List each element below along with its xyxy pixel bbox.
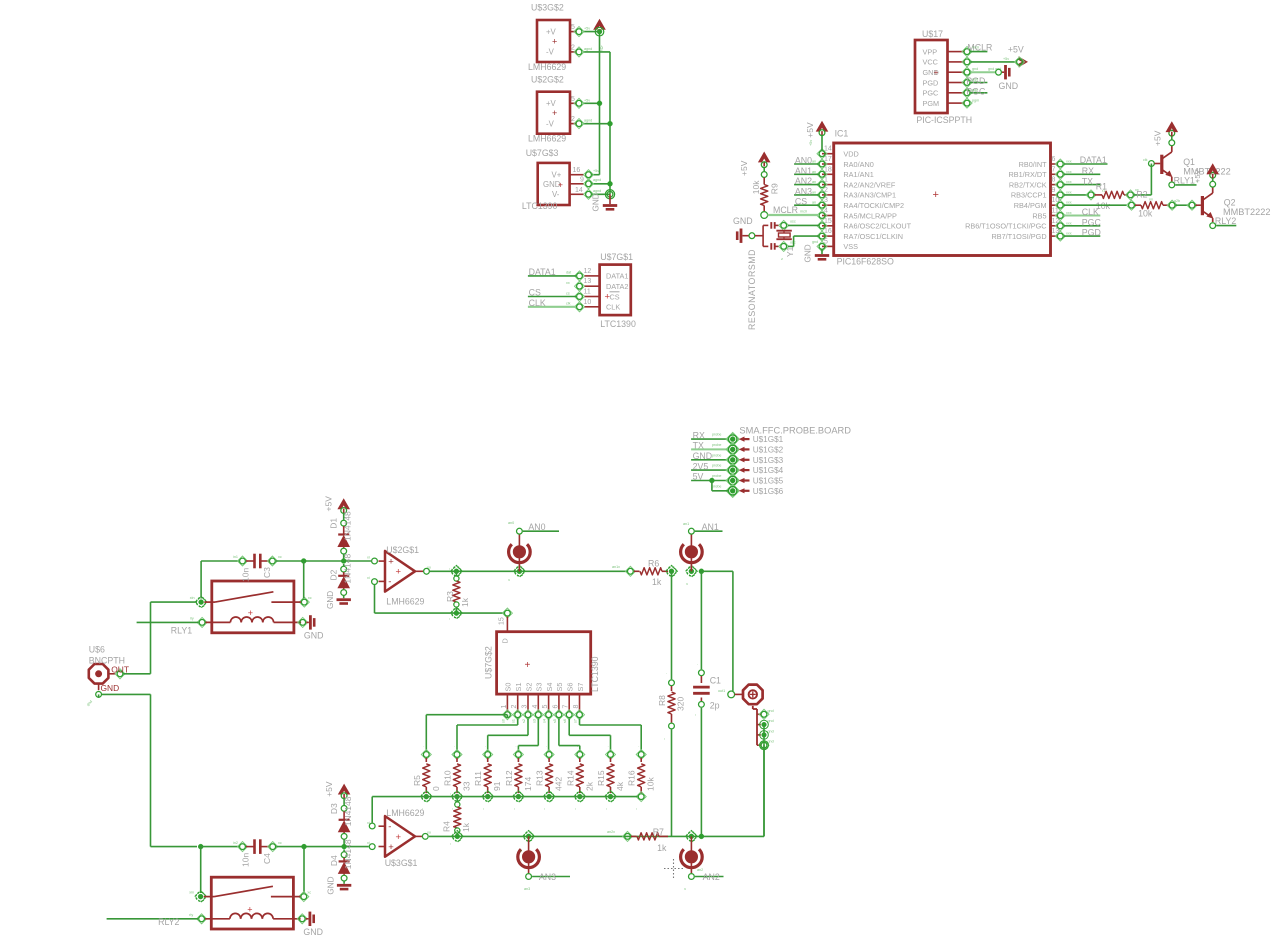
svg-text:12: 12 bbox=[584, 268, 592, 275]
svg-text:RESONATORSMD: RESONATORSMD bbox=[747, 249, 757, 330]
svg-text:pgd: pgd bbox=[972, 78, 978, 82]
svg-text:+5v: +5v bbox=[584, 27, 590, 31]
svg-text:xxx: xxx bbox=[1066, 211, 1072, 215]
svg-text:R9: R9 bbox=[770, 183, 780, 194]
svg-text:osc: osc bbox=[790, 241, 796, 245]
svg-text:1N4148: 1N4148 bbox=[343, 511, 353, 541]
svg-text:4: 4 bbox=[532, 705, 539, 709]
svg-text:RA1/AN1: RA1/AN1 bbox=[843, 170, 873, 179]
svg-text:CS: CS bbox=[529, 288, 541, 298]
svg-text:probe: probe bbox=[712, 443, 721, 447]
svg-text:CS: CS bbox=[610, 292, 620, 301]
svg-text:xi: xi bbox=[367, 576, 370, 580]
svg-text:~: ~ bbox=[694, 714, 698, 716]
svg-text:LMH6629: LMH6629 bbox=[386, 808, 424, 818]
svg-text:xxx: xxx bbox=[1066, 221, 1072, 225]
svg-text:xxx: xxx bbox=[1066, 170, 1072, 174]
svg-text:xc: xc bbox=[307, 891, 311, 895]
svg-text:probe: probe bbox=[712, 433, 721, 437]
svg-text:·: · bbox=[423, 745, 424, 749]
svg-text:an1: an1 bbox=[683, 522, 689, 526]
svg-text:gnd: gnd bbox=[812, 240, 818, 244]
svg-text:9: 9 bbox=[1052, 187, 1056, 194]
svg-text:an2: an2 bbox=[697, 868, 703, 872]
svg-text:R14: R14 bbox=[565, 770, 575, 786]
svg-text:5: 5 bbox=[571, 96, 575, 103]
svg-text:R10: R10 bbox=[443, 770, 453, 786]
svg-text:out1: out1 bbox=[718, 689, 725, 693]
svg-text:PIC-ICSPPTH: PIC-ICSPPTH bbox=[916, 115, 972, 125]
svg-text:10k: 10k bbox=[1138, 209, 1153, 219]
svg-text:·: · bbox=[638, 745, 639, 749]
svg-text:gnd: gnd bbox=[768, 709, 774, 713]
svg-text:+: + bbox=[248, 608, 253, 618]
svg-text:R4: R4 bbox=[441, 821, 451, 832]
svg-text:in2: in2 bbox=[233, 841, 238, 845]
svg-text:xi: xi bbox=[367, 556, 370, 560]
svg-text:D2: D2 bbox=[329, 569, 339, 580]
svg-text:11: 11 bbox=[1052, 208, 1059, 215]
svg-text:~: ~ bbox=[635, 808, 639, 810]
svg-text:TX: TX bbox=[1082, 176, 1093, 186]
svg-text:U$7G$2: U$7G$2 bbox=[483, 646, 493, 679]
svg-text:DATA2: DATA2 bbox=[606, 282, 628, 291]
svg-text:U$7G$1: U$7G$1 bbox=[600, 252, 633, 262]
svg-text:13: 13 bbox=[1052, 228, 1060, 235]
svg-text:~: ~ bbox=[605, 808, 609, 810]
svg-text:an: an bbox=[812, 170, 816, 174]
svg-text:+5v: +5v bbox=[600, 45, 604, 51]
svg-text:xx: xx bbox=[566, 281, 570, 285]
svg-text:s1: s1 bbox=[512, 719, 516, 723]
svg-text:+: + bbox=[934, 67, 939, 77]
svg-text:V-: V- bbox=[552, 190, 560, 199]
svg-text:s2: s2 bbox=[522, 719, 526, 723]
svg-text:U$3G$1: U$3G$1 bbox=[385, 858, 418, 868]
svg-text:Q2: Q2 bbox=[1224, 198, 1236, 208]
svg-text:15: 15 bbox=[499, 617, 506, 625]
svg-text:1N4148: 1N4148 bbox=[343, 839, 353, 869]
svg-text:RLY1: RLY1 bbox=[171, 626, 192, 636]
svg-text:RA3/AN3/CMP1: RA3/AN3/CMP1 bbox=[843, 191, 896, 200]
svg-text:gnd: gnd bbox=[768, 729, 774, 733]
svg-text:VDD: VDD bbox=[843, 150, 858, 159]
svg-text:RA0/AN0: RA0/AN0 bbox=[843, 160, 873, 169]
svg-text:9: 9 bbox=[580, 176, 584, 183]
svg-text:1k: 1k bbox=[461, 822, 471, 832]
svg-text:D4: D4 bbox=[329, 855, 339, 866]
svg-text:+5v: +5v bbox=[1003, 57, 1009, 61]
svg-text:R2: R2 bbox=[1136, 189, 1147, 199]
svg-text:10: 10 bbox=[1052, 197, 1060, 204]
svg-text:-V: -V bbox=[546, 119, 555, 128]
svg-text:1N4148: 1N4148 bbox=[343, 554, 353, 584]
svg-text:1k: 1k bbox=[652, 577, 662, 587]
svg-text:33: 33 bbox=[462, 781, 472, 791]
svg-text:RB5: RB5 bbox=[1032, 211, 1046, 220]
svg-text:C4: C4 bbox=[262, 853, 272, 864]
svg-text:14: 14 bbox=[824, 146, 832, 153]
svg-text:RB0/INT: RB0/INT bbox=[1019, 160, 1048, 169]
svg-text:U$1G$2: U$1G$2 bbox=[753, 445, 784, 454]
svg-text:xc: xc bbox=[308, 596, 312, 600]
svg-text:RB3/CCP1: RB3/CCP1 bbox=[1011, 191, 1047, 200]
svg-text:5: 5 bbox=[824, 238, 828, 245]
svg-text:S1: S1 bbox=[514, 683, 523, 692]
svg-text:U$2G$2: U$2G$2 bbox=[531, 74, 564, 84]
svg-text:C3: C3 bbox=[262, 567, 272, 578]
svg-text:an: an bbox=[812, 180, 816, 184]
svg-text:0: 0 bbox=[431, 786, 441, 791]
svg-text:R13: R13 bbox=[535, 770, 545, 786]
svg-text:pgm: pgm bbox=[972, 99, 979, 103]
svg-text:6: 6 bbox=[1052, 156, 1056, 163]
svg-text:AN0: AN0 bbox=[528, 522, 545, 532]
svg-text:xxx: xxx bbox=[1066, 190, 1072, 194]
svg-text:2: 2 bbox=[511, 705, 518, 709]
svg-text:mclr: mclr bbox=[800, 210, 808, 214]
svg-text:dat: dat bbox=[566, 271, 571, 275]
svg-text:4: 4 bbox=[824, 208, 828, 215]
svg-text:gnd: gnd bbox=[768, 719, 774, 723]
svg-text:clk: clk bbox=[1143, 158, 1148, 162]
svg-text:GND: GND bbox=[303, 927, 323, 937]
svg-text:AN3: AN3 bbox=[795, 186, 812, 196]
svg-text:6: 6 bbox=[552, 705, 559, 709]
svg-text:R7: R7 bbox=[653, 827, 664, 837]
svg-text:8: 8 bbox=[1052, 177, 1056, 184]
svg-text:LMH6629: LMH6629 bbox=[386, 597, 424, 607]
svg-text:2V5: 2V5 bbox=[693, 461, 709, 471]
svg-text:s4: s4 bbox=[543, 719, 547, 723]
svg-text:x: x bbox=[685, 583, 689, 585]
svg-text:·: · bbox=[485, 745, 486, 749]
svg-text:xxx: xxx bbox=[1066, 201, 1072, 205]
svg-text:R5: R5 bbox=[412, 775, 422, 786]
svg-text:x: x bbox=[507, 579, 511, 581]
svg-text:RX: RX bbox=[693, 430, 705, 440]
svg-text:10k: 10k bbox=[646, 777, 656, 791]
svg-text:+V: +V bbox=[546, 27, 557, 36]
svg-text:probe: probe bbox=[712, 464, 721, 468]
svg-text:xc: xc bbox=[278, 555, 282, 559]
svg-text:cs: cs bbox=[566, 292, 570, 296]
svg-text:RA7/OSC1/CLKIN: RA7/OSC1/CLKIN bbox=[843, 232, 903, 241]
svg-text:U$1G$4: U$1G$4 bbox=[753, 466, 784, 475]
svg-text:clk: clk bbox=[566, 302, 571, 306]
svg-text:10n: 10n bbox=[241, 568, 251, 582]
svg-text:in1: in1 bbox=[233, 555, 238, 559]
svg-text:AN2: AN2 bbox=[795, 176, 812, 186]
svg-text:VSS: VSS bbox=[843, 242, 858, 251]
svg-text:U$2G$1: U$2G$1 bbox=[386, 545, 419, 555]
svg-text:CLK: CLK bbox=[529, 298, 546, 308]
svg-text:LMH6629: LMH6629 bbox=[528, 134, 566, 144]
svg-text:S6: S6 bbox=[566, 683, 575, 692]
svg-text:s: s bbox=[780, 258, 784, 260]
svg-text:PIC16F628SO: PIC16F628SO bbox=[837, 257, 894, 267]
svg-text:GND: GND bbox=[733, 216, 753, 226]
svg-text:RB4/PGM: RB4/PGM bbox=[1014, 201, 1047, 210]
svg-text:VCC: VCC bbox=[923, 58, 938, 67]
svg-text:RB6/T1OSO/T1CKI/PGC: RB6/T1OSO/T1CKI/PGC bbox=[965, 222, 1047, 231]
svg-text:s7: s7 bbox=[574, 719, 578, 723]
svg-text:an2x: an2x bbox=[607, 830, 615, 834]
svg-text:GND: GND bbox=[592, 193, 601, 211]
svg-text:an: an bbox=[812, 160, 816, 164]
svg-text:+5V: +5V bbox=[324, 781, 334, 797]
svg-text:U$1G$6: U$1G$6 bbox=[753, 487, 784, 496]
svg-text:S2: S2 bbox=[524, 683, 533, 692]
svg-text:3: 3 bbox=[522, 705, 529, 709]
svg-text:~: ~ bbox=[451, 808, 455, 810]
svg-text:1N4148: 1N4148 bbox=[343, 796, 353, 826]
svg-text:+5V: +5V bbox=[1008, 45, 1024, 55]
svg-text:7: 7 bbox=[1052, 166, 1056, 173]
svg-text:+5V: +5V bbox=[1193, 169, 1202, 183]
svg-text:AN2: AN2 bbox=[703, 872, 720, 882]
svg-text:probe: probe bbox=[712, 474, 721, 478]
svg-text:R15: R15 bbox=[596, 770, 606, 786]
svg-text:CLK: CLK bbox=[1082, 207, 1099, 217]
svg-text:Q1: Q1 bbox=[1183, 157, 1195, 167]
svg-text:DATA1: DATA1 bbox=[1080, 155, 1107, 165]
svg-text:an1x: an1x bbox=[612, 565, 620, 569]
svg-text:rly: rly bbox=[189, 913, 193, 917]
svg-text:probe: probe bbox=[712, 453, 721, 457]
svg-text:VPP: VPP bbox=[923, 47, 938, 56]
svg-text:SMA.FFC.PROBE.BOARD: SMA.FFC.PROBE.BOARD bbox=[739, 426, 851, 436]
svg-text:U$1G$1: U$1G$1 bbox=[753, 435, 784, 444]
svg-text:probe: probe bbox=[712, 484, 721, 488]
svg-text:1: 1 bbox=[501, 705, 508, 709]
svg-text:DATA1: DATA1 bbox=[606, 272, 628, 281]
svg-text:RA2/AN2/VREF: RA2/AN2/VREF bbox=[843, 180, 895, 189]
svg-text:GND: GND bbox=[804, 244, 813, 262]
svg-text:2: 2 bbox=[571, 116, 575, 123]
svg-text:7: 7 bbox=[563, 705, 570, 709]
svg-text:+5v: +5v bbox=[593, 169, 599, 173]
svg-text:~: ~ bbox=[574, 808, 578, 810]
svg-text:xc: xc bbox=[278, 841, 282, 845]
svg-text:5V: 5V bbox=[693, 472, 704, 482]
svg-text:PGD: PGD bbox=[923, 78, 939, 87]
svg-text:RA6/OSC2/CLKOUT: RA6/OSC2/CLKOUT bbox=[843, 222, 911, 231]
svg-text:~: ~ bbox=[448, 568, 452, 570]
svg-text:1k: 1k bbox=[460, 597, 470, 607]
svg-text:D1: D1 bbox=[329, 518, 339, 529]
svg-text:S7: S7 bbox=[576, 683, 585, 692]
svg-text:q2b: q2b bbox=[1174, 199, 1180, 203]
svg-text:gnd: gnd bbox=[768, 740, 774, 744]
svg-text:C1: C1 bbox=[710, 676, 721, 686]
svg-text:12: 12 bbox=[1052, 218, 1060, 225]
svg-text:U$1G$5: U$1G$5 bbox=[753, 477, 784, 486]
svg-text:+: + bbox=[396, 567, 402, 578]
svg-text:16: 16 bbox=[824, 228, 832, 235]
svg-text:xxx: xxx bbox=[1066, 180, 1072, 184]
svg-text:·: · bbox=[546, 745, 547, 749]
svg-text:+: + bbox=[388, 556, 394, 567]
svg-text:R6: R6 bbox=[648, 559, 659, 569]
svg-text:MMBT2222: MMBT2222 bbox=[1223, 207, 1271, 217]
svg-text:RLY2: RLY2 bbox=[158, 917, 179, 927]
svg-text:x: x bbox=[683, 888, 687, 890]
svg-text:+5v: +5v bbox=[809, 140, 813, 146]
svg-text:nn: nn bbox=[1149, 198, 1153, 202]
svg-text:·: · bbox=[666, 672, 667, 676]
svg-text:91: 91 bbox=[492, 781, 502, 791]
svg-text:an3: an3 bbox=[524, 887, 530, 891]
svg-text:~: ~ bbox=[482, 808, 486, 810]
svg-text:DATA1: DATA1 bbox=[529, 267, 556, 277]
svg-text:rly: rly bbox=[190, 616, 194, 620]
svg-text:R8: R8 bbox=[657, 695, 667, 706]
svg-text:5: 5 bbox=[542, 705, 549, 709]
svg-text:RX: RX bbox=[1082, 166, 1094, 176]
svg-text:+V: +V bbox=[546, 99, 557, 108]
svg-text:-: - bbox=[388, 822, 391, 833]
svg-text:R3: R3 bbox=[445, 591, 455, 602]
svg-text:agnd: agnd bbox=[584, 119, 592, 123]
svg-text:+: + bbox=[396, 832, 402, 843]
svg-text:GND: GND bbox=[101, 683, 120, 693]
svg-text:-: - bbox=[388, 577, 391, 588]
svg-text:RB2/TX/CK: RB2/TX/CK bbox=[1009, 180, 1047, 189]
svg-text:PGM: PGM bbox=[923, 99, 940, 108]
svg-text:mclr: mclr bbox=[972, 46, 980, 50]
svg-text:U$1G$3: U$1G$3 bbox=[753, 456, 784, 465]
svg-text:r1: r1 bbox=[1102, 189, 1105, 193]
svg-text:-V: -V bbox=[546, 48, 555, 57]
svg-text:agnd: agnd bbox=[584, 47, 592, 51]
svg-text:LTC1390: LTC1390 bbox=[600, 319, 636, 329]
svg-text:AN1: AN1 bbox=[795, 166, 812, 176]
svg-text:PGD: PGD bbox=[1082, 228, 1101, 238]
svg-text:18: 18 bbox=[824, 166, 832, 173]
svg-text:R16: R16 bbox=[627, 770, 637, 786]
svg-text:an: an bbox=[812, 201, 816, 205]
svg-text:IC1: IC1 bbox=[835, 129, 849, 139]
svg-text:17: 17 bbox=[824, 156, 832, 163]
svg-text:GND: GND bbox=[999, 81, 1019, 91]
svg-text:U$7G$3: U$7G$3 bbox=[526, 148, 559, 158]
svg-text:·: · bbox=[454, 745, 455, 749]
svg-text:+5v: +5v bbox=[584, 98, 590, 102]
svg-text:8: 8 bbox=[573, 705, 580, 709]
svg-text:U$3G$2: U$3G$2 bbox=[531, 3, 564, 13]
svg-text:CLK: CLK bbox=[606, 303, 620, 312]
svg-text:RB7/T1OSI/PGD: RB7/T1OSI/PGD bbox=[991, 232, 1046, 241]
svg-text:10: 10 bbox=[584, 299, 592, 306]
svg-text:10n: 10n bbox=[241, 853, 251, 867]
svg-text:s5: s5 bbox=[553, 719, 557, 723]
svg-text:D: D bbox=[501, 638, 510, 643]
svg-text:5: 5 bbox=[571, 24, 575, 31]
svg-text:LTC1390: LTC1390 bbox=[590, 656, 600, 692]
svg-text:·: · bbox=[697, 663, 698, 667]
svg-text:PGC: PGC bbox=[1082, 217, 1102, 227]
svg-text:OUT: OUT bbox=[111, 664, 129, 674]
svg-text:16: 16 bbox=[573, 167, 581, 174]
svg-text:14: 14 bbox=[575, 187, 583, 194]
svg-text:·: · bbox=[608, 745, 609, 749]
svg-text:+: + bbox=[247, 904, 252, 914]
svg-text:RB1/RX/DT: RB1/RX/DT bbox=[1008, 170, 1047, 179]
svg-text:xi: xi bbox=[367, 841, 370, 845]
svg-text:agnd: agnd bbox=[593, 189, 601, 193]
svg-text:1k: 1k bbox=[657, 843, 667, 853]
svg-text:4k: 4k bbox=[615, 781, 625, 791]
svg-text:13: 13 bbox=[584, 278, 592, 285]
svg-text:2: 2 bbox=[824, 187, 828, 194]
svg-text:GND: GND bbox=[304, 631, 324, 641]
svg-text:x: x bbox=[519, 850, 523, 852]
svg-text:GND: GND bbox=[693, 451, 713, 461]
svg-text:AN3: AN3 bbox=[539, 872, 556, 882]
svg-text:+: + bbox=[388, 842, 394, 853]
svg-text:11: 11 bbox=[584, 289, 591, 296]
svg-text:+: + bbox=[558, 179, 563, 189]
svg-text:·: · bbox=[515, 745, 516, 749]
svg-text:xin: xin bbox=[189, 891, 194, 895]
svg-text:15: 15 bbox=[824, 218, 832, 225]
svg-text:GND: GND bbox=[326, 591, 335, 609]
svg-text:s0: s0 bbox=[501, 719, 505, 723]
svg-text:xin: xin bbox=[190, 596, 195, 600]
svg-text:TX: TX bbox=[693, 441, 704, 451]
svg-text:U$6: U$6 bbox=[89, 645, 105, 655]
svg-text:2k: 2k bbox=[584, 781, 594, 791]
svg-text:agnd: agnd bbox=[593, 178, 601, 182]
svg-text:PGC: PGC bbox=[923, 89, 939, 98]
svg-text:442: 442 bbox=[554, 777, 564, 791]
svg-text:RA5/MCLRA/PP: RA5/MCLRA/PP bbox=[843, 211, 897, 220]
svg-text:MMBT2222: MMBT2222 bbox=[1183, 167, 1231, 177]
svg-text:GND: GND bbox=[326, 876, 335, 894]
svg-text:S5: S5 bbox=[555, 683, 564, 692]
svg-text:xxx: xxx bbox=[1066, 232, 1072, 236]
svg-text:gnd: gnd bbox=[972, 67, 978, 71]
svg-text:+: + bbox=[552, 108, 557, 118]
svg-text:3: 3 bbox=[824, 197, 828, 204]
svg-text:AN1: AN1 bbox=[702, 522, 719, 532]
svg-text:2: 2 bbox=[571, 44, 575, 51]
svg-text:an0: an0 bbox=[508, 521, 514, 525]
svg-text:S4: S4 bbox=[545, 683, 554, 692]
svg-text:AN0: AN0 bbox=[795, 156, 812, 166]
svg-text:Y1: Y1 bbox=[785, 246, 795, 257]
svg-text:+5V: +5V bbox=[324, 496, 334, 512]
svg-text:+: + bbox=[605, 292, 611, 303]
svg-text:U$17: U$17 bbox=[922, 29, 943, 39]
svg-text:S3: S3 bbox=[535, 683, 544, 692]
svg-text:D3: D3 bbox=[329, 803, 339, 814]
svg-text:V+: V+ bbox=[552, 171, 562, 180]
svg-text:2p: 2p bbox=[710, 701, 720, 711]
svg-text:s6: s6 bbox=[563, 719, 567, 723]
svg-text:174: 174 bbox=[523, 777, 533, 791]
svg-text:~: ~ bbox=[449, 793, 453, 795]
svg-text:xxx: xxx bbox=[1066, 160, 1072, 164]
svg-text:s3: s3 bbox=[532, 719, 536, 723]
svg-text:RLY1: RLY1 bbox=[1174, 175, 1195, 185]
svg-text:pgc: pgc bbox=[972, 88, 978, 92]
svg-text:+: + bbox=[525, 660, 531, 671]
svg-text:+: + bbox=[933, 189, 939, 201]
svg-text:+5V: +5V bbox=[739, 160, 749, 176]
svg-text:RA4/TOCKI/CMP2: RA4/TOCKI/CMP2 bbox=[843, 201, 904, 210]
